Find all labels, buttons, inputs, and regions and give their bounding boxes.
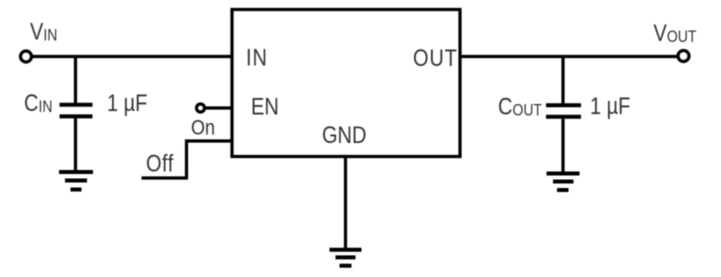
svg-text:Off: Off xyxy=(146,150,174,177)
ground (input) xyxy=(59,172,93,190)
terminal VIN xyxy=(21,51,32,62)
svg-text:CIN: CIN xyxy=(24,89,52,116)
value label 1uF (input) xyxy=(107,89,147,116)
svg-text:1 µF: 1 µF xyxy=(107,89,147,116)
svg-text:1 µF: 1 µF xyxy=(590,92,630,119)
label On xyxy=(191,116,215,140)
svg-text:IN: IN xyxy=(246,44,268,71)
pin label IN xyxy=(246,44,268,71)
wire VIN to IN pin xyxy=(33,55,232,58)
wire EN stub xyxy=(205,106,232,109)
terminal EN (switch pole) xyxy=(197,104,205,112)
pin label EN xyxy=(251,93,279,120)
svg-text:GND: GND xyxy=(322,121,366,148)
label COUT xyxy=(498,93,542,120)
node VOUT label xyxy=(654,19,697,46)
wire input node down to CIN xyxy=(74,57,77,104)
wire GND pin down xyxy=(344,157,347,249)
terminal VOUT xyxy=(678,51,689,62)
label CIN xyxy=(24,89,52,116)
pin label GND xyxy=(322,121,366,148)
label Off xyxy=(146,150,174,177)
wire COUT to ground xyxy=(561,119,564,172)
regulator IC U1 box xyxy=(232,10,460,157)
svg-text:OUT: OUT xyxy=(413,44,458,71)
switch throw On wire xyxy=(185,139,232,142)
value label 1uF (output) xyxy=(590,92,630,119)
svg-text:VIN: VIN xyxy=(30,18,57,45)
ground (IC) xyxy=(330,250,362,266)
svg-text:On: On xyxy=(191,116,215,140)
wire CIN to ground xyxy=(74,118,77,170)
node VIN label xyxy=(30,18,57,45)
capacitor C_OUT xyxy=(546,105,581,117)
svg-text:COUT: COUT xyxy=(498,93,542,120)
wire OUT pin to VOUT xyxy=(460,55,678,58)
switch vertical wire xyxy=(185,140,188,179)
svg-text:EN: EN xyxy=(251,93,279,120)
pin label OUT xyxy=(413,44,458,71)
capacitor C_IN xyxy=(60,105,93,117)
ground (output) xyxy=(547,174,580,191)
svg-text:VOUT: VOUT xyxy=(654,19,697,46)
wire output node down to COUT xyxy=(561,57,564,104)
switch throw Off wire xyxy=(142,176,189,179)
